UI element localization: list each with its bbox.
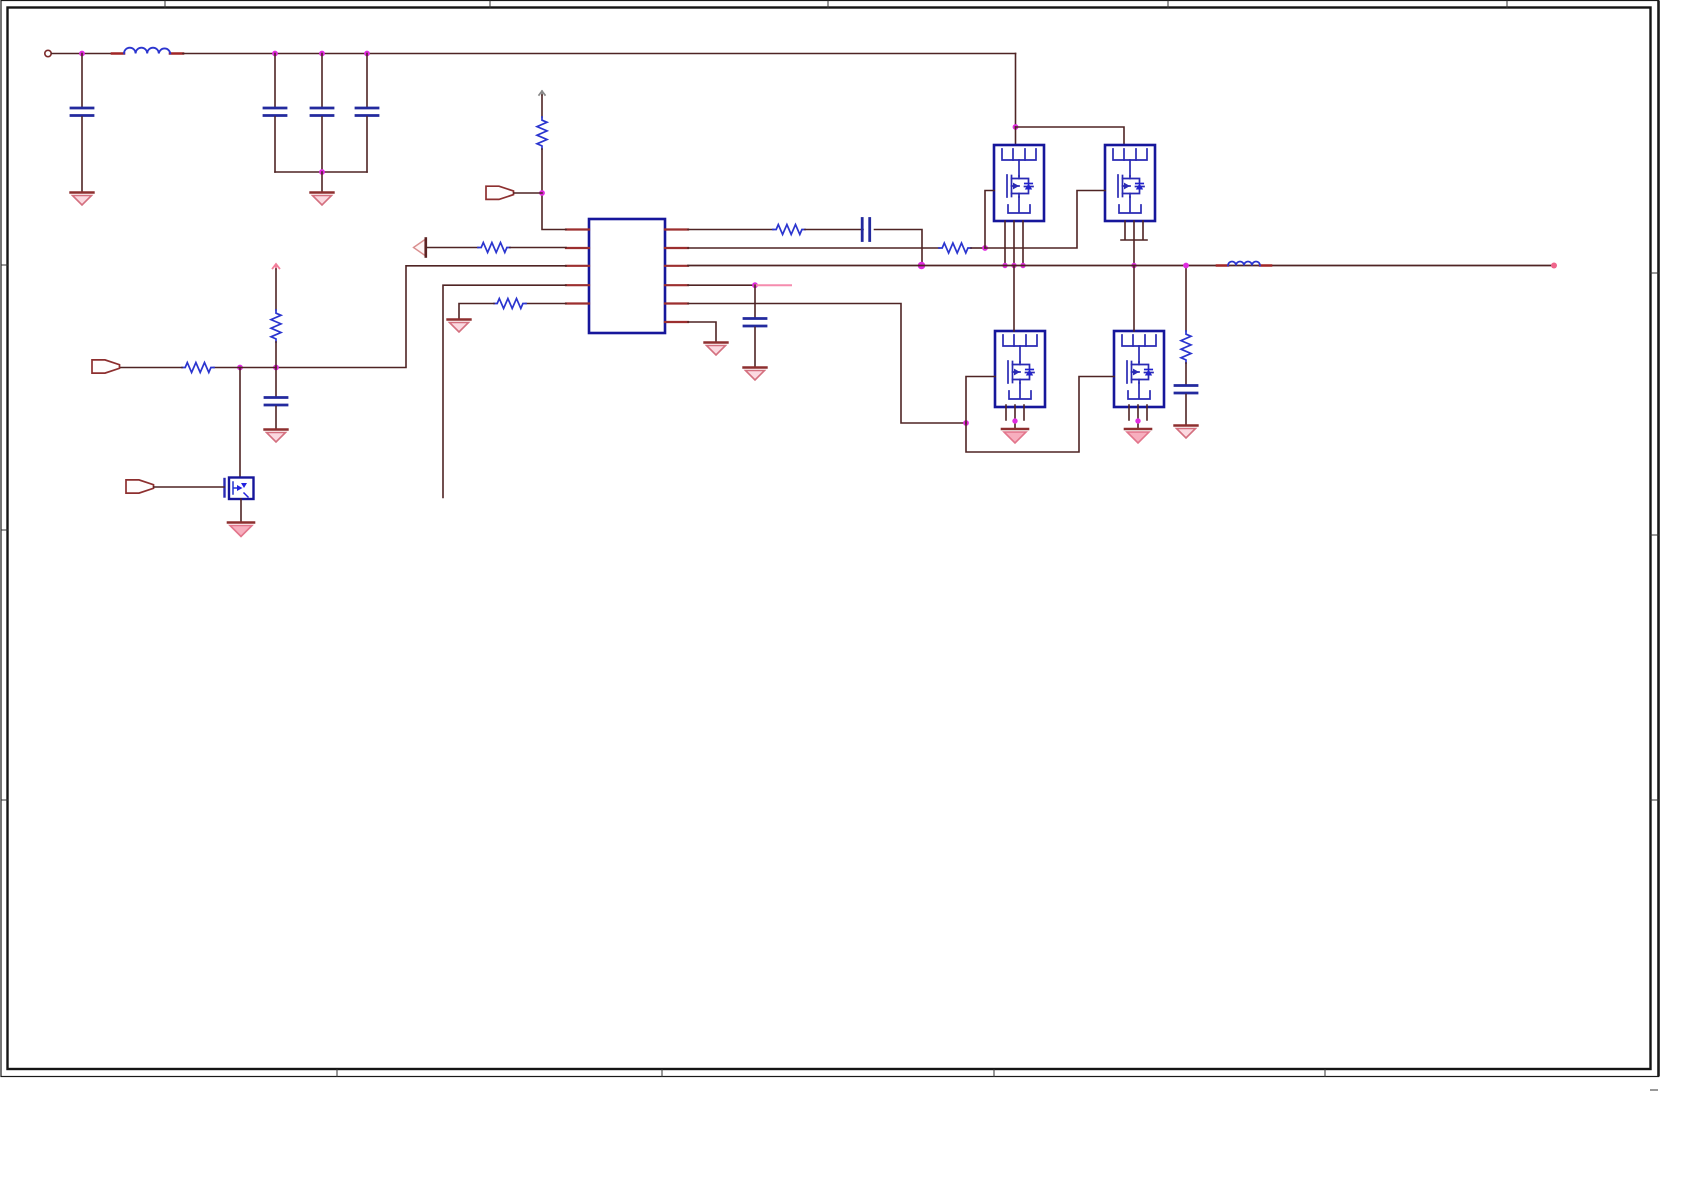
junction A2 xyxy=(272,51,278,57)
node VCC tip xyxy=(539,91,545,95)
wire tip to resistor R5 xyxy=(275,269,277,310)
wire U1 pin L5 to resistor R6 xyxy=(526,303,566,305)
wire U1 pin R1 snubber xyxy=(688,229,773,231)
resistor R2 vertical xyxy=(537,117,547,149)
border zone ticks top xyxy=(165,1,1507,9)
placeholder content marker xyxy=(0,0,1,1)
junction A1 xyxy=(79,51,85,57)
junction A5 on bus xyxy=(319,169,325,175)
ground at U1 pin R6 xyxy=(705,343,728,356)
wire B1 to B2 to resistor R4 xyxy=(214,367,276,369)
wire C5 to ground xyxy=(275,407,277,429)
wire B1 down to capacitor C5 xyxy=(275,368,277,397)
wire port P3 to resistor R3 xyxy=(427,247,478,249)
wire lug P2 to VCC wire xyxy=(514,192,542,194)
resistor R4 xyxy=(182,363,214,373)
resistor R7 xyxy=(773,225,805,235)
junction rail RC leg xyxy=(1183,263,1189,269)
wire C8 to ground xyxy=(1185,395,1187,425)
junction A3 xyxy=(319,51,325,57)
connector lug P1 xyxy=(92,360,120,373)
resistor R5 vertical xyxy=(271,310,281,342)
junction M4 source dot xyxy=(1135,418,1140,423)
wire M2 source bracket to rail xyxy=(1121,221,1147,266)
ground below capacitor bus xyxy=(311,193,334,206)
wire inductor to MOSFET feed corner xyxy=(183,53,1016,55)
wire A3 down to C3 xyxy=(321,54,323,108)
wire U1 pin L3 feedback run xyxy=(276,266,566,368)
junction B2 xyxy=(237,365,243,371)
wire B2 down to transistor Q1 drain xyxy=(239,368,241,478)
wire bus to ground xyxy=(321,172,323,191)
node VIN terminal circle xyxy=(45,50,51,56)
capacitor C8 xyxy=(1175,386,1197,394)
wire R9 to capacitor C8 xyxy=(1185,363,1187,385)
transistor M2 xyxy=(1105,145,1155,221)
wire U1 pin R6 to ground xyxy=(688,322,716,341)
wire drain tee to M1 drain xyxy=(1015,127,1017,145)
capacitor C2 xyxy=(264,108,286,116)
junction M3 source dot xyxy=(1012,418,1017,423)
resistor R6 xyxy=(494,299,526,309)
wire U1 pin R2 to gate resistor xyxy=(688,247,939,249)
op-amp U1 body xyxy=(589,219,665,333)
wire rail to M3 drain xyxy=(1013,266,1015,332)
wire C6 to rail drop xyxy=(875,230,923,266)
wire M1 source stubs to rail xyxy=(1005,221,1023,266)
wire junction A1 down to C1 xyxy=(81,54,83,108)
junction R4 node xyxy=(752,282,758,288)
junction gate node xyxy=(982,245,988,251)
junction A4 xyxy=(364,51,370,57)
ground at R6 xyxy=(448,320,471,333)
wire U1 pin R4 to junction xyxy=(688,284,755,286)
wire R3 to U1 pin L2 xyxy=(510,247,566,249)
wire C1 to ground xyxy=(81,117,83,191)
wire low gate node to M4 gate xyxy=(966,377,1114,453)
U1 right pin stubs xyxy=(665,230,688,323)
wire R8 to gate junction xyxy=(971,247,985,249)
junction on VCC wire xyxy=(539,190,545,196)
wire R2 to U1 pin L1 xyxy=(542,149,566,230)
junction on rail at snubber xyxy=(918,262,926,270)
inductor L2 on rail xyxy=(1217,262,1271,266)
node tip above R5 xyxy=(273,264,280,269)
wire A2 down to C2 xyxy=(274,54,276,108)
wire VIN to inductor xyxy=(52,53,120,55)
border zone ticks right xyxy=(1650,273,1659,1090)
wire Q1 source to ground xyxy=(240,499,242,521)
junction M2 source dot xyxy=(1131,263,1136,268)
wire top feed down to drain tee xyxy=(1015,54,1017,128)
transistor M3 xyxy=(995,331,1045,407)
ground below Q1 xyxy=(228,523,254,537)
ground below C7 xyxy=(744,368,767,381)
transistor Q1 xyxy=(225,478,254,500)
capacitor C3 xyxy=(311,108,333,116)
wire VCC tip to resistor R2 xyxy=(541,95,543,117)
wire R6 to ground drop xyxy=(459,304,494,319)
wire R4 node down to capacitor C7 xyxy=(754,285,756,317)
junction drain tee xyxy=(1013,124,1019,130)
wire C3 to bus xyxy=(321,117,323,172)
wire M4 source stubs to ground xyxy=(1129,405,1147,428)
capacitor C5 xyxy=(265,398,287,406)
wire U1 pin L4 to lower rail corner xyxy=(443,285,566,497)
ground below C5 xyxy=(265,430,288,443)
wire rail to M4 drain xyxy=(1133,266,1135,332)
transistor M4 xyxy=(1114,331,1164,407)
wire C4 to bus xyxy=(366,117,368,172)
capacitor C1 xyxy=(71,108,93,116)
wire M3 source stubs to ground xyxy=(1006,405,1024,428)
node rail end dot xyxy=(1551,263,1557,269)
connector lug P4 xyxy=(126,480,154,493)
junction low gate node xyxy=(963,420,969,426)
wire low gate node up to M3 gate xyxy=(966,377,995,424)
wire U1 pin R5 to low-side gates xyxy=(688,304,966,424)
resistor R9 vertical xyxy=(1181,331,1191,363)
wire lug P4 to Q1 gate xyxy=(154,486,224,488)
wire R4 to lug P1 xyxy=(120,367,182,369)
connector lug P2 xyxy=(486,186,514,199)
ground below M3 xyxy=(1002,429,1028,443)
junction B1 xyxy=(273,365,279,371)
inductor L1 xyxy=(112,48,183,54)
ground below C8 xyxy=(1175,426,1198,439)
wire C2 to bus xyxy=(274,117,276,172)
wire rail to RC leg xyxy=(1185,266,1187,332)
wire gate node up to M1 gate xyxy=(985,191,994,249)
wire gate node to M2 gate xyxy=(985,191,1105,249)
resistor R3 xyxy=(478,243,510,253)
border zone ticks left xyxy=(1,265,9,800)
capacitor C7 xyxy=(744,319,766,327)
port arrow P3 xyxy=(414,239,426,257)
wire pink stub on R4 node xyxy=(755,284,791,286)
ground below C1 xyxy=(71,193,94,206)
border zone ticks bottom xyxy=(337,1069,1325,1077)
transistor M1 xyxy=(994,145,1044,221)
resistor R8 gate xyxy=(939,243,971,253)
U1 left pin stubs xyxy=(566,230,589,304)
junction M1 source dots xyxy=(1002,263,1025,268)
wire C7 to ground xyxy=(754,328,756,367)
ground below M4 xyxy=(1125,429,1151,443)
wire R7 to capacitor C6 xyxy=(805,229,863,231)
wire R5 to junction B1 xyxy=(275,342,277,368)
capacitor C6 xyxy=(862,219,870,241)
wire switch rail (U1 pin R3 across) xyxy=(688,265,1554,267)
border outer right thick edge xyxy=(1657,1,1660,1077)
wire drain tee to M2 drain xyxy=(1016,127,1125,145)
capacitor C4 xyxy=(356,108,378,116)
wire capacitor bottom bus xyxy=(275,171,367,173)
wire A4 down to C4 xyxy=(366,54,368,108)
